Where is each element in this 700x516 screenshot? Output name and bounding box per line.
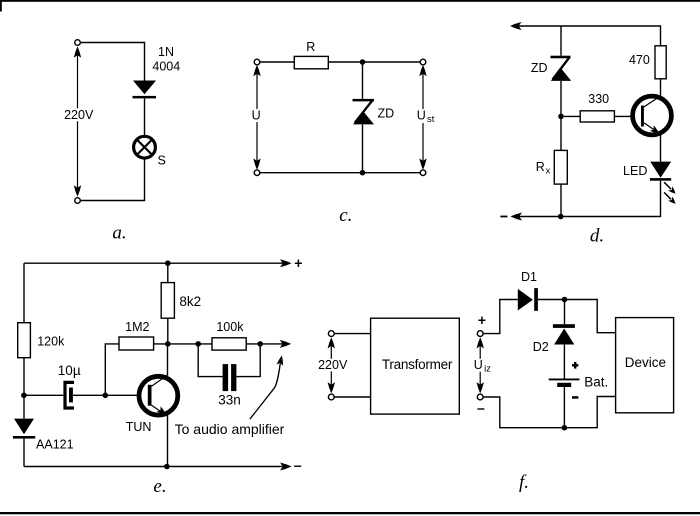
resistor Rx [554, 150, 567, 184]
node junction top rail (circuit e) [165, 260, 171, 266]
wire to zener (circuit c) [362, 62, 364, 99]
wire base left segment [24, 394, 64, 396]
page top border [0, 0, 700, 2]
svg-text:R: R [306, 40, 315, 54]
terminal top-right (circuit c) [420, 59, 426, 65]
wire transistor to LED [660, 135, 662, 162]
wire 120k to AA121 [23, 358, 25, 419]
wire emitter to bottom rail (circuit e) [167, 415, 169, 467]
node junction top (circuit c) [360, 59, 366, 65]
transistor Q (circuit d) [633, 96, 672, 135]
terminal right-top (circuit f) [477, 331, 483, 337]
wire 330 branch [564, 115, 641, 117]
node junction mid 2 (circuit e) [195, 341, 201, 347]
wire D2 to battery [563, 345, 565, 380]
svg-text:ZD: ZD [531, 61, 548, 75]
terminal top-left (circuit c) [254, 59, 260, 65]
arrowhead bottom-left (circuit d) [511, 213, 523, 221]
arrowhead mid-right (circuit e) [280, 340, 292, 348]
svg-text:1N: 1N [158, 45, 174, 59]
wire lamp to bottom (circuit a) [80, 158, 144, 200]
svg-text:R: R [536, 160, 545, 174]
svg-text:330: 330 [588, 92, 609, 106]
LED light arrows [664, 182, 676, 204]
wire 470 to transistor (circuit d) [660, 79, 662, 97]
svg-text:D1: D1 [521, 270, 537, 284]
terminal left-top (circuit f) [328, 331, 334, 337]
wire cap to base [73, 394, 148, 396]
node junction mid (circuit d) [558, 114, 564, 120]
svg-text:x: x [546, 166, 551, 177]
svg-text:S: S [158, 154, 166, 168]
diode D1 [518, 288, 538, 311]
arrowhead bottom-right (circuit e) [280, 463, 292, 471]
node junction D2 top [562, 297, 568, 303]
svg-text:33n: 33n [218, 392, 241, 407]
wire top rail (circuit d) [516, 26, 661, 46]
svg-text:c.: c. [339, 205, 352, 226]
measure arrow 220V (circuit a) [63, 46, 95, 196]
resistor 1M2 [119, 337, 154, 350]
resistor R [294, 56, 328, 68]
wire diode to lamp [144, 98, 146, 136]
node junction bottom (circuit d) [558, 214, 564, 220]
svg-text:470: 470 [629, 53, 650, 67]
node junction base wire [103, 393, 109, 399]
wire Rx to bottom rail (circuit d) [560, 184, 562, 216]
svg-text:d.: d. [590, 225, 604, 246]
wire minus terminal to device bottom [483, 397, 615, 428]
svg-text:8k2: 8k2 [179, 294, 201, 309]
block Transformer [371, 318, 460, 414]
terminal bottom-left (circuit c) [254, 170, 260, 176]
svg-text:To audio amplifier: To audio amplifier [175, 421, 285, 437]
label plus (circuit e) [295, 260, 302, 267]
label minus (circuit f) [477, 408, 484, 410]
capacitor 33n [223, 364, 237, 391]
measure arrow Uiz (circuit f) [472, 337, 493, 393]
label Ust [417, 109, 435, 126]
block Device [616, 318, 674, 413]
svg-text:D2: D2 [533, 340, 549, 354]
zener diode ZD (circuit c) [353, 99, 375, 125]
svg-text:AA121: AA121 [36, 438, 74, 452]
svg-text:a.: a. [112, 223, 126, 244]
svg-text:iz: iz [484, 364, 491, 375]
wire D1 to device top [538, 300, 616, 333]
node junction mid 1 (circuit e) [165, 341, 171, 347]
svg-text:Bat.: Bat. [584, 375, 608, 390]
node junction bottom (circuit c) [360, 170, 366, 176]
wire ZD to junction (circuit d) [560, 81, 562, 150]
label Uiz [474, 358, 491, 375]
node junction bottom rail (circuit e) [164, 464, 170, 470]
wire bottom rail (circuit c) [260, 172, 420, 174]
capacitor 10u [65, 382, 74, 408]
diode 1N4004 [133, 81, 157, 99]
wire mid rail (circuit e) [168, 343, 285, 345]
diode AA121 [13, 419, 35, 439]
svg-text:100k: 100k [216, 320, 244, 334]
wire top rail (circuit c) [260, 61, 420, 63]
measure arrow Ust (circuit c) [415, 65, 436, 170]
measure arrow 220V (circuit f) [318, 337, 348, 393]
terminal bottom-right (circuit c) [420, 170, 426, 176]
transistor TUN [139, 375, 178, 415]
wire zener to bottom (circuit c) [362, 124, 364, 172]
zener diode ZD (circuit d) [551, 56, 572, 81]
resistor 330 [580, 111, 614, 122]
wire top rail (circuit e) [24, 262, 285, 264]
svg-text:120k: 120k [37, 335, 65, 349]
lamp S [134, 136, 156, 158]
battery minus mark [572, 396, 578, 399]
svg-text:U: U [474, 358, 483, 372]
terminal right-bottom (circuit f) [477, 394, 483, 400]
wire 8k2 branch [167, 263, 169, 344]
svg-text:220V: 220V [64, 108, 94, 122]
svg-text:ZD: ZD [377, 107, 394, 121]
label minus (circuit e) [294, 465, 301, 467]
wire top (circuit a) [80, 43, 144, 81]
resistor 120k [18, 323, 31, 358]
svg-text:e.: e. [153, 476, 166, 497]
svg-text:LED: LED [623, 164, 647, 178]
diode LED [650, 162, 671, 181]
svg-text:TUN: TUN [126, 420, 152, 434]
label 1N 4004 [152, 45, 180, 73]
wire AA121 to bottom rail [23, 439, 25, 467]
terminal top-left (circuit a) [75, 40, 81, 46]
wire battery to bottom rail [563, 387, 565, 428]
svg-text:U: U [417, 109, 426, 123]
battery Bat. [549, 379, 580, 387]
resistor 8k2 [161, 283, 174, 319]
resistor 470 [655, 46, 666, 79]
measure arrow U (circuit c) [250, 65, 263, 170]
wire collector (circuit e) [167, 344, 169, 376]
page bottom border [0, 512, 700, 514]
node junction base wire left [21, 393, 27, 399]
page left corner tick [0, 0, 2, 12]
wire 1M2 branch [105, 344, 168, 395]
node junction mid 3 (circuit e) [257, 341, 263, 347]
wire ZD drop (circuit d) [560, 26, 562, 56]
terminal bottom-left (circuit a) [75, 198, 81, 204]
svg-text:10µ: 10µ [58, 363, 81, 378]
wire bottom rail (circuit e) [24, 466, 285, 468]
wire D2 branch [564, 300, 566, 325]
arrowhead top-left (circuit d) [510, 22, 522, 30]
terminal left-bottom (circuit f) [328, 394, 334, 400]
wire bottom rail (circuit d) [517, 181, 661, 217]
wire plus terminal to D1 [483, 300, 518, 334]
svg-text:Transformer: Transformer [382, 357, 453, 372]
wire left branch (circuit e) [23, 263, 25, 323]
label plus (circuit f) [478, 317, 485, 324]
svg-text:U: U [252, 109, 261, 123]
svg-text:f.: f. [519, 472, 529, 493]
svg-text:220V: 220V [318, 358, 348, 372]
label Rx [536, 160, 551, 177]
battery plus mark [572, 362, 578, 369]
wire terminals to transformer [334, 334, 370, 397]
svg-text:1M2: 1M2 [125, 320, 149, 334]
svg-text:st: st [427, 114, 435, 125]
pointer curve to output [250, 355, 283, 419]
diode D2 [553, 324, 575, 344]
svg-text:4004: 4004 [152, 59, 180, 73]
resistor 100k [212, 338, 246, 350]
wire 33n branch [198, 344, 260, 377]
node junction bottom rail (circuit f) [562, 425, 568, 431]
arrowhead top-right (circuit e) [280, 259, 292, 267]
svg-text:Device: Device [625, 355, 666, 370]
minus dash (circuit d) [500, 216, 507, 218]
